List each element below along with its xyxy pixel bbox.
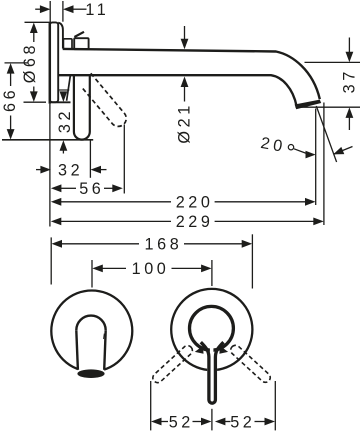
spout top edge: [63, 49, 320, 99]
dim 56 left arrow: [51, 184, 62, 192]
dim 32h left arrow: [40, 166, 51, 174]
dim 20deg leader: [294, 149, 306, 154]
lever tip reference line: [2, 139, 93, 141]
dim O21 bottom stem: [184, 86, 186, 102]
dashed lever front right: [229, 343, 272, 384]
lever ring notch: [210, 345, 214, 353]
outlet tip extension line (229): [323, 103, 325, 226]
lever handle front view stem white fill: [199, 341, 226, 408]
dim 229 right arrow: [313, 218, 324, 226]
dim 56 right arrow: [112, 184, 123, 192]
svg-text:52: 52: [169, 413, 194, 431]
wall line: [49, 22, 52, 103]
escutcheon front profile: [58, 23, 63, 49]
screw box 1: [63, 39, 72, 49]
svg-text:229: 229: [176, 213, 214, 231]
spout outlet opening: [77, 369, 104, 378]
hub right edge: [67, 76, 71, 101]
dim 32h left tail: [36, 169, 42, 171]
svg-text:32: 32: [58, 161, 83, 179]
dim 37 bottom stem: [348, 118, 350, 131]
spout front view capsule white fill: [76, 316, 105, 373]
spout bottom edge: [58, 75, 296, 106]
dim 11 left arrow: [40, 5, 51, 13]
dim 66 top arrow: [7, 63, 15, 74]
dim 32v top arrow: [62, 92, 64, 95]
dim 100 lines: [102, 267, 126, 269]
dim 11 tail line: [35, 8, 42, 10]
dim 220 left arrow: [51, 198, 62, 206]
dim 20deg tail: [334, 147, 353, 155]
svg-text:66: 66: [1, 87, 19, 112]
dim 220 lines: [61, 201, 171, 203]
dim O68 bottom arrow: [30, 91, 38, 102]
spout outlet face: [295, 100, 322, 110]
dim 11 stem: [73, 8, 87, 10]
svg-text:100: 100: [132, 260, 170, 278]
spout capsule notch: [103, 334, 106, 339]
dim 66 bottom arrow: [7, 129, 15, 140]
dim 52 center extension: [211, 409, 213, 431]
lever ear right: [219, 346, 228, 354]
dim 100 left arrow: [92, 265, 103, 273]
dim 66 stems: [10, 73, 12, 86]
svg-text:32: 32: [56, 108, 74, 133]
dim 20deg right arrow: [306, 151, 316, 159]
dim O68 stems: [33, 32, 35, 42]
dim 52L left arrow: [151, 418, 162, 426]
dim 52L right arrow: [201, 418, 212, 426]
dim 229 left arrow: [51, 218, 62, 226]
svg-text:52: 52: [230, 413, 255, 431]
dim 32v bottom arrow: [60, 140, 68, 151]
dim 32h right arrow: [91, 166, 102, 174]
dim 37 top stem: [348, 38, 350, 53]
dim 56 lines: [61, 187, 76, 189]
dim 220 right arrow: [305, 198, 316, 206]
hub seam: [59, 89, 70, 91]
dim 100 right extension: [211, 260, 213, 286]
dashed lever front left: [151, 344, 194, 385]
dim 168 left extension: [50, 237, 52, 284]
dashed lever open position: [78, 73, 129, 130]
dim 66 top tick: [5, 62, 29, 64]
right escutcheon circle: [171, 289, 252, 370]
limiter flag: [74, 32, 84, 37]
svg-text:11: 11: [85, 1, 109, 19]
dim O21 top arrow: [181, 39, 189, 50]
dim 168 right arrow: [242, 240, 253, 248]
dim 52 right extension: [274, 381, 276, 430]
dim O21 top stem: [184, 26, 186, 40]
dim 100 right arrow: [201, 265, 212, 273]
outlet vertical reference line (220): [315, 109, 317, 206]
dim 168 right extension: [251, 234, 253, 288]
dim O68 top arrow: [30, 23, 38, 34]
dim 56 extension line: [123, 125, 125, 194]
outlet 20deg axis line: [316, 106, 336, 162]
dim 52R lines: [225, 421, 231, 423]
dim O21 bottom arrow: [181, 77, 189, 88]
dim O68 bottom tick: [24, 101, 47, 103]
left escutcheon circle: [51, 291, 132, 372]
dim 168 lines: [62, 243, 140, 245]
dim 32h extension line: [89, 140, 91, 178]
dim 100 left extension: [91, 260, 93, 288]
dim 37 top tick: [305, 61, 360, 63]
dim 32h right tail: [101, 169, 107, 171]
dim 37 top arrow: [346, 52, 354, 63]
dim 37 bottom arrow: [346, 107, 354, 118]
spout front view capsule: [76, 316, 105, 331]
dim 52 left extension: [150, 381, 152, 430]
svg-text:Ø21: Ø21: [176, 102, 194, 143]
escutcheon plate rim: [50, 22, 58, 102]
wall extension line lower: [49, 104, 51, 227]
extension line plate front top: [62, 1, 64, 22]
dim 52R right arrow: [265, 418, 276, 426]
lever ear left: [195, 346, 204, 354]
svg-text:56: 56: [79, 180, 104, 198]
dim 229 lines: [61, 220, 171, 222]
dim 20deg left arrow: [333, 147, 344, 155]
svg-text:37: 37: [341, 68, 359, 93]
hub bottom face: [49, 101, 71, 103]
svg-text:168: 168: [144, 236, 182, 254]
svg-text:220: 220: [176, 194, 214, 212]
dim 168 left arrow: [52, 240, 63, 248]
dim 52L lines: [161, 421, 168, 423]
screw box 2: [74, 38, 88, 49]
extension line wall top: [49, 1, 51, 22]
dim 52R left arrow: [215, 418, 226, 426]
dim 37 bottom tick: [296, 106, 360, 108]
dim 11 right arrow: [63, 5, 74, 13]
lever stem: [201, 342, 224, 403]
dim O68 top tick: [25, 21, 52, 23]
lever handle side view: [74, 75, 90, 140]
lever handle ring: [190, 306, 234, 350]
